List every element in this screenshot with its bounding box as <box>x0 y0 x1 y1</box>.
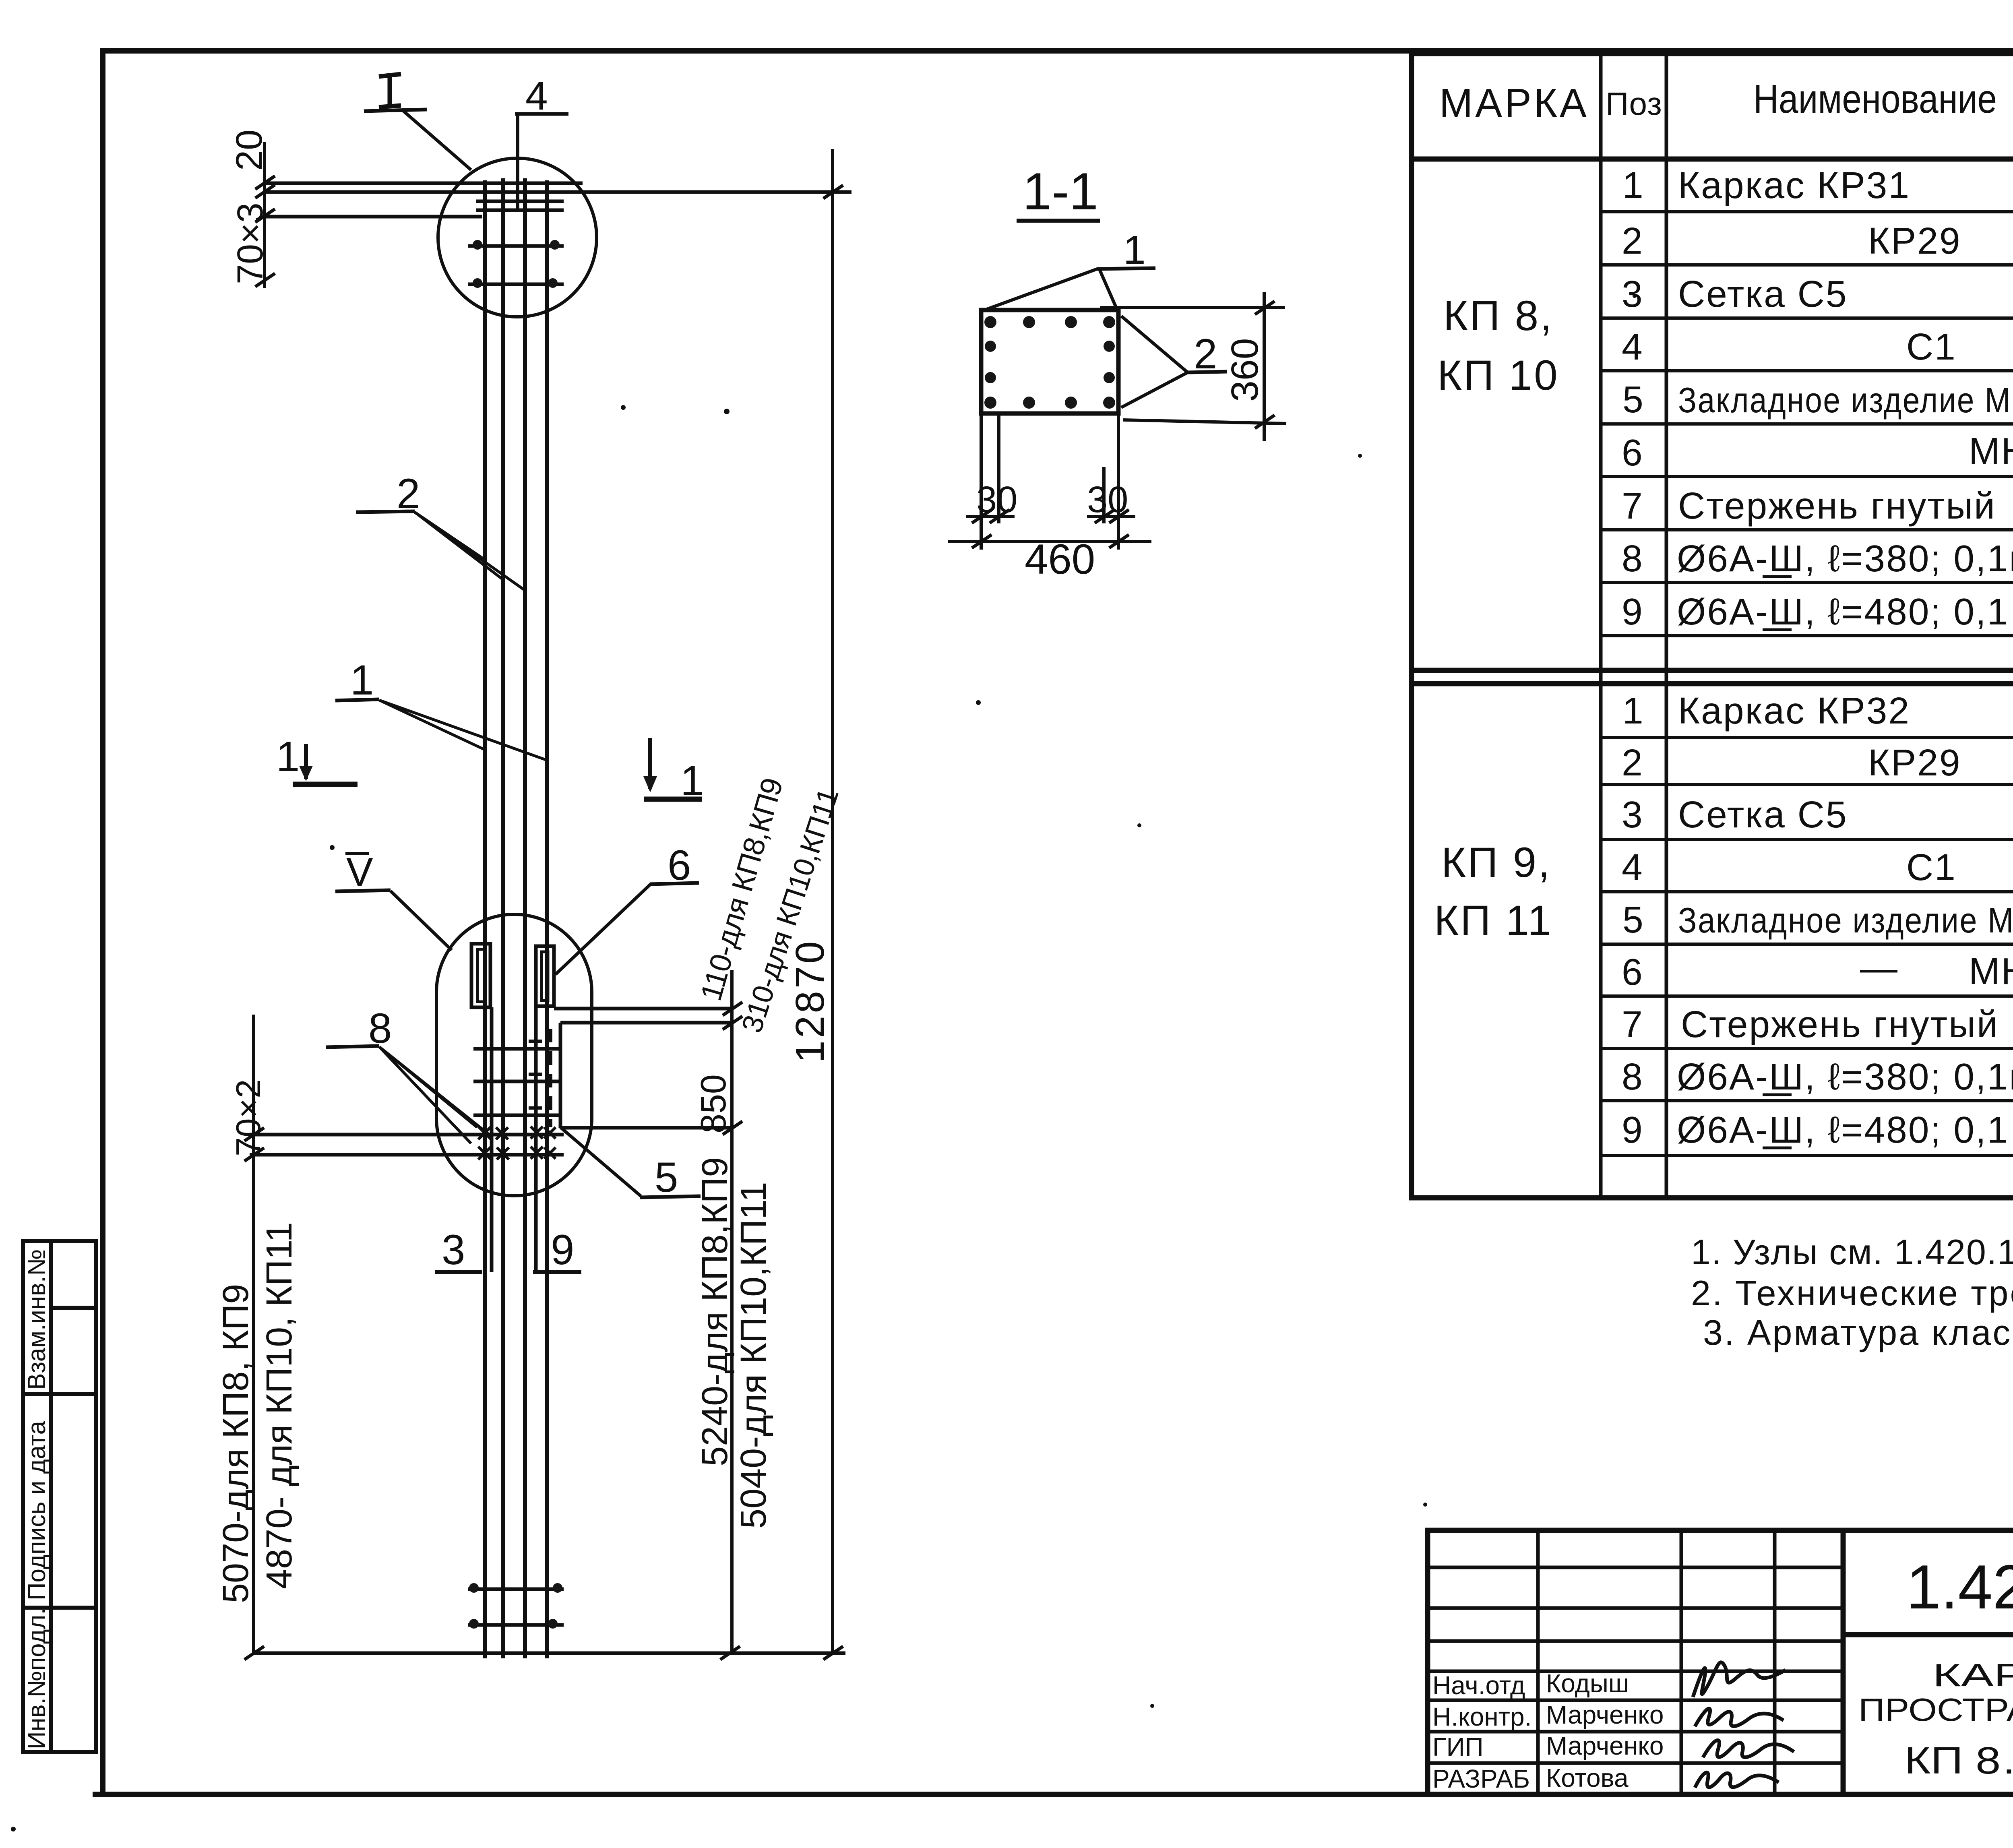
table header texts <box>1439 76 2013 126</box>
svg-text:КП 9,: КП 9, <box>1441 839 1551 886</box>
left sidebar stamp boxes <box>23 1241 96 1752</box>
label 4 with leader down to bars <box>515 73 568 209</box>
embedded plate left (MH) <box>471 944 490 1007</box>
specification table grid <box>1412 54 2013 1198</box>
section 1-1 title <box>1017 162 1100 221</box>
svg-text:С1: С1 <box>1906 846 1957 888</box>
svg-text:РАЗРАБ: РАЗРАБ <box>1432 1764 1530 1793</box>
svg-text:4870- для КП10, КП11: 4870- для КП10, КП11 <box>259 1222 300 1589</box>
label 8 with leaders to weld zone <box>326 1005 489 1143</box>
svg-text:Марченко: Марченко <box>1546 1700 1664 1729</box>
column base line <box>253 1652 845 1655</box>
svg-text:С1: С1 <box>1906 326 1957 368</box>
svg-text:Инв.№подл.: Инв.№подл. <box>23 1608 51 1749</box>
label 9 bar <box>533 1226 581 1273</box>
svg-text:3: 3 <box>1622 273 1644 315</box>
svg-text:Поз.: Поз. <box>1606 86 1672 122</box>
svg-text:5240-для КП8,КП9: 5240-для КП8,КП9 <box>695 1157 735 1466</box>
svg-text:1.420.1-32.2-2 – 04: 1.420.1-32.2-2 – 04 <box>1906 1552 2013 1622</box>
svg-text:9: 9 <box>1622 591 1644 633</box>
svg-text:Ø6А-Ш, ℓ=380; 0,1кг: Ø6А-Ш, ℓ=380; 0,1кг <box>1677 1056 2013 1098</box>
svg-text:3: 3 <box>1622 794 1644 835</box>
svg-text:6: 6 <box>1622 951 1644 993</box>
middle dim ruler 110/310 + 850 <box>723 970 742 1653</box>
label 1 with leaders <box>335 657 547 760</box>
svg-text:Подпись и дата: Подпись и дата <box>23 1421 51 1600</box>
table row lines group 1 <box>1601 212 2013 636</box>
svg-text:3: 3 <box>442 1226 465 1273</box>
title text <box>1858 1657 2013 1782</box>
svg-text:5: 5 <box>1622 899 1645 941</box>
section 1-1 leader 1 <box>982 227 1155 311</box>
svg-text:Взам.инв.№: Взам.инв.№ <box>23 1249 51 1390</box>
embedded plate right (MH) <box>536 946 554 1006</box>
svg-text:30: 30 <box>1087 479 1128 520</box>
signatures <box>1693 1662 1794 1788</box>
svg-text:1-1: 1-1 <box>1023 162 1098 221</box>
svg-text:Сетка С5: Сетка С5 <box>1678 273 1848 315</box>
svg-text:ГИП: ГИП <box>1432 1732 1484 1761</box>
svg-text:5: 5 <box>1622 378 1645 420</box>
svg-text:20: 20 <box>229 130 270 171</box>
svg-text:КП 8,: КП 8, <box>1443 292 1553 339</box>
section 1-1 rebar dots <box>984 316 1115 409</box>
svg-text:Закладное изделие МН 6: Закладное изделие МН 6 <box>1678 380 2013 420</box>
svg-text:КП 11: КП 11 <box>1434 897 1553 944</box>
connector plate-bottom to dim ruler <box>554 1009 732 1128</box>
notes <box>1691 1232 2013 1352</box>
svg-text:Кодыш: Кодыш <box>1546 1669 1629 1698</box>
svg-text:12870: 12870 <box>787 939 833 1063</box>
svg-text:Ø6А-Ш, ℓ=380; 0,1кг: Ø6А-Ш, ℓ=380; 0,1кг <box>1677 537 2013 579</box>
section mark 1 (left, arrow down) <box>276 733 358 784</box>
svg-text:МН32: МН32 <box>1969 950 2013 992</box>
title block grid <box>1428 1530 2013 1794</box>
staff rows <box>1432 1669 1664 1793</box>
svg-text:1: 1 <box>1123 227 1146 273</box>
svg-text:5040-для КП10,КП11: 5040-для КП10,КП11 <box>734 1182 774 1529</box>
svg-text:КР29: КР29 <box>1868 742 1961 783</box>
svg-text:Котова: Котова <box>1546 1763 1629 1792</box>
lap bars (poz 3 and 9) inside joint zone <box>492 1006 536 1272</box>
svg-text:Н.контр.: Н.контр. <box>1432 1702 1531 1731</box>
svg-text:Стержень гнутый: Стержень гнутый <box>1678 485 1996 527</box>
svg-text:8: 8 <box>1622 537 1644 579</box>
column elevation : main longitudinal bars <box>485 178 547 1658</box>
detail circle I (top joint) <box>438 158 597 317</box>
svg-text:4: 4 <box>1622 846 1644 888</box>
svg-text:МН32: МН32 <box>1969 430 2013 472</box>
svg-text:ПРОСТРАНСТВЕННЫЙ: ПРОСТРАНСТВЕННЫЙ <box>1858 1691 2013 1728</box>
svg-text:2: 2 <box>1622 742 1644 783</box>
svg-text:360: 360 <box>1224 338 1266 402</box>
section 1-1 dim 360 <box>1100 292 1286 441</box>
svg-text:460: 460 <box>1025 536 1095 583</box>
svg-text:2. Технические требования см.: 2. Технические требования см. 1.420.1-32… <box>1691 1273 2013 1313</box>
dashed lap outline right of bars <box>529 1029 551 1127</box>
svg-text:1: 1 <box>1622 164 1645 206</box>
svg-text:1. Узлы см. 1.420.1-32.2-2У: 1. Узлы см. 1.420.1-32.2-2У <box>1691 1232 2013 1272</box>
section mark 1 (right, arrow down) <box>643 738 704 804</box>
svg-text:9: 9 <box>1622 1109 1644 1151</box>
svg-text:—: — <box>1860 947 1899 989</box>
table row lines group 2 <box>1601 738 2013 1156</box>
svg-text:9: 9 <box>551 1226 574 1273</box>
label I with leader <box>364 74 471 170</box>
bottom tie bars with dots <box>468 1589 564 1625</box>
svg-text:5070-для КП8, КП9: 5070-для КП8, КП9 <box>216 1284 256 1603</box>
group 1 rows <box>1622 164 2013 633</box>
top stirrup group lines <box>265 183 851 217</box>
svg-text:Каркас КР32: Каркас КР32 <box>1678 690 1910 732</box>
svg-text:30: 30 <box>976 479 1017 520</box>
svg-text:КАРКАС: КАРКАС <box>1932 1657 2013 1693</box>
tie bars with end dots (top) <box>468 246 564 284</box>
section 1-1 dim 30 30 460 <box>948 413 1151 550</box>
label 5 with leader <box>560 1127 701 1201</box>
svg-text:4: 4 <box>1622 326 1644 368</box>
label 3 bar <box>435 1226 482 1273</box>
svg-text:Стержень гнутый: Стержень гнутый <box>1681 1003 1999 1045</box>
svg-text:6: 6 <box>1622 432 1644 473</box>
svg-text:МАРКА: МАРКА <box>1439 81 1589 126</box>
overall dim line 12870 <box>823 149 843 1660</box>
label 6 with leader to right plate <box>556 842 699 974</box>
left dim ruler 70x2 / 5070 <box>244 1015 264 1660</box>
section 1-1 leader 2 <box>1121 316 1227 407</box>
bottom-of-joint stirrup pair (70x2) <box>250 1135 564 1155</box>
section 1-1 square <box>981 310 1118 413</box>
svg-text:КР29: КР29 <box>1868 220 1961 262</box>
svg-text:1: 1 <box>1622 690 1645 732</box>
group 2 rows <box>1622 690 2013 1151</box>
svg-text:5: 5 <box>655 1154 678 1201</box>
svg-text:2: 2 <box>1622 220 1644 262</box>
top dimension ruler 20 / 70x3 <box>255 142 275 288</box>
svg-text:70×2: 70×2 <box>229 1079 268 1156</box>
weld cross marks <box>478 1119 556 1168</box>
svg-text:Сетка С5: Сетка С5 <box>1678 794 1848 835</box>
svg-text:4: 4 <box>525 73 548 118</box>
svg-text:Марченко: Марченко <box>1546 1731 1664 1760</box>
svg-text:Нач.отд: Нач.отд <box>1432 1671 1525 1700</box>
svg-text:Ø6А-Ш, ℓ=480; 0,1 кг: Ø6А-Ш, ℓ=480; 0,1 кг <box>1677 1109 2013 1151</box>
svg-text:7: 7 <box>1622 485 1644 527</box>
svg-text:8: 8 <box>1622 1056 1644 1098</box>
svg-text:70×3: 70×3 <box>230 203 271 284</box>
svg-text:КП 8…КП 11: КП 8…КП 11 <box>1904 1739 2013 1782</box>
svg-text:Ø6А-Ш, ℓ=480; 0,1 кг: Ø6А-Ш, ℓ=480; 0,1 кг <box>1677 591 2013 633</box>
svg-text:Закладное изделие МН6: Закладное изделие МН6 <box>1678 900 2013 940</box>
label 2 with leaders <box>356 470 524 590</box>
joint stirrups inside oval <box>473 1049 559 1115</box>
svg-text:850: 850 <box>693 1074 733 1133</box>
svg-text:7: 7 <box>1622 1003 1644 1045</box>
svg-text:Каркас КР31: Каркас КР31 <box>1678 164 1910 206</box>
svg-text:КП 10: КП 10 <box>1437 352 1559 399</box>
svg-text:1: 1 <box>350 657 374 704</box>
svg-text:V: V <box>346 850 373 895</box>
svg-text:3. Арматура классов А-Ш,А-I по: 3. Арматура классов А-Ш,А-I по ГОСТ 5781… <box>1703 1313 2013 1352</box>
svg-text:1: 1 <box>276 733 300 780</box>
label V with leader to oval <box>335 850 452 950</box>
oval detail V (joint zone) <box>436 914 592 1196</box>
svg-text:Наименование: Наименование <box>1753 76 1997 122</box>
